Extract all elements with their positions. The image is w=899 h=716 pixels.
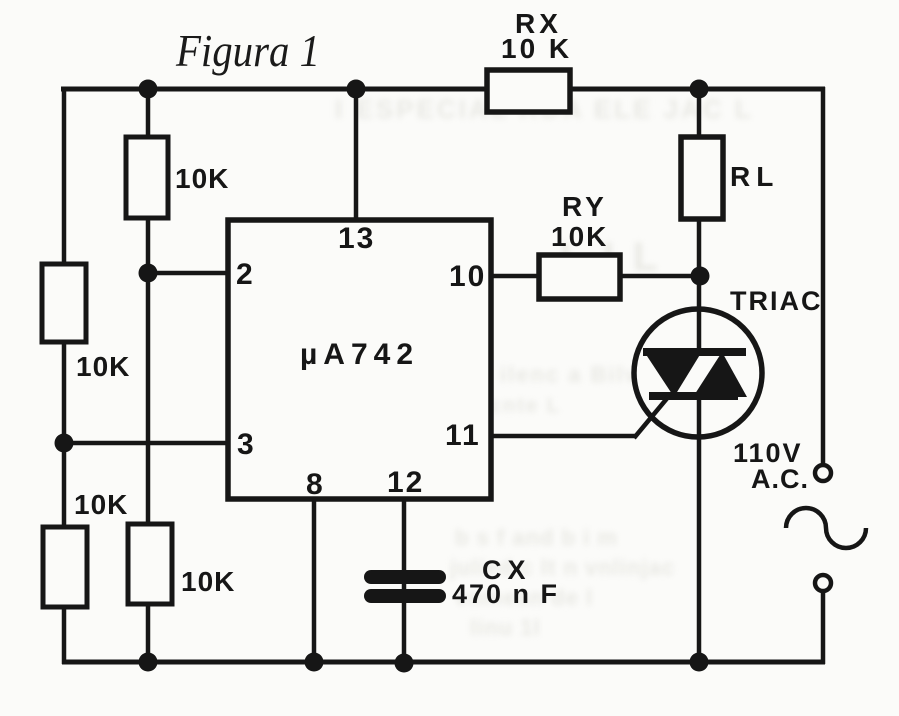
svg-text:cnte L: cnte L (490, 395, 561, 417)
svg-text:10K: 10K (551, 221, 608, 252)
wire: right AC vertical lower (821, 592, 826, 664)
node: junction top col2 (139, 80, 158, 99)
wire: pin 13 vertical (354, 89, 359, 221)
wire: pin 8 vertical (312, 499, 317, 663)
resistor RX (487, 70, 570, 112)
wire: triac gate diagonal (634, 396, 669, 438)
wire: pin 2 horizontal (148, 271, 230, 276)
node: junction bottom triac (690, 653, 709, 672)
wire: RL / triac column vertical upper (697, 89, 702, 352)
node: junction pin2 (139, 264, 158, 283)
svg-text:A.C.: A.C. (751, 464, 809, 494)
svg-text:µA742: µA742 (300, 338, 419, 371)
svg-text:12: 12 (387, 466, 424, 499)
wire: pin 3 horizontal (64, 441, 230, 446)
resistor 10K lower-left (43, 527, 87, 607)
svg-text:8: 8 (306, 468, 323, 501)
wire: top rail (61, 87, 825, 92)
wire: left vertical rail (62, 87, 67, 664)
triac symbol (643, 348, 747, 400)
resistor 10K lower-middle (128, 524, 172, 604)
svg-text:RL: RL (730, 161, 779, 192)
svg-text:b s f and b i m: b s f and b i m (455, 525, 618, 550)
svg-text:10K: 10K (74, 489, 128, 520)
svg-text:10K: 10K (181, 566, 235, 597)
svg-text:ilenc a Bilva: ilenc a Bilva (500, 362, 653, 387)
node: junction top RL (690, 80, 709, 99)
svg-text:10 K: 10 K (501, 33, 572, 64)
svg-text:linu 1l: linu 1l (470, 615, 541, 640)
svg-text:11: 11 (445, 419, 481, 452)
svg-text:3: 3 (237, 428, 254, 461)
node: junction top pin13 (347, 80, 366, 99)
AC sine symbol (786, 508, 866, 548)
wire: bottom rail (62, 660, 825, 665)
svg-text:470 n F: 470 n F (452, 579, 559, 609)
terminal lower AC (815, 575, 831, 591)
node: junction bottom pin8 (305, 653, 324, 672)
triac body circle (634, 309, 762, 437)
svg-text:TRIAC: TRIAC (730, 286, 823, 316)
node: junction bottom col2 (139, 653, 158, 672)
svg-text:10: 10 (449, 260, 486, 293)
svg-text:Figura 1: Figura 1 (175, 25, 320, 76)
wire: second column vertical (146, 89, 151, 662)
svg-text:2: 2 (236, 258, 253, 291)
capacitor CX plates (364, 570, 446, 603)
svg-text:10K: 10K (76, 351, 130, 382)
wire: pin 12 vertical (402, 499, 407, 663)
svg-text:10K: 10K (175, 163, 229, 194)
resistor 10K upper-middle (126, 137, 168, 218)
node: junction bottom pin12 (395, 654, 414, 673)
wire: pin 11 horizontal (490, 434, 635, 439)
wire: pin 10 to RY to RL column (490, 274, 700, 279)
terminal upper AC (815, 465, 831, 481)
resistor RY (539, 255, 620, 299)
svg-text:13: 13 (338, 222, 375, 255)
svg-text:RY: RY (562, 191, 608, 222)
node: junction pin3 left (55, 434, 74, 453)
resistor 10K upper-left (42, 264, 86, 342)
wire: right AC vertical upper (821, 87, 826, 464)
node: junction RY-RL (691, 267, 710, 286)
resistor RL (681, 137, 723, 219)
wire: RL / triac column vertical lower (697, 396, 702, 662)
op-amp IC U1 uA742 box (228, 220, 491, 499)
